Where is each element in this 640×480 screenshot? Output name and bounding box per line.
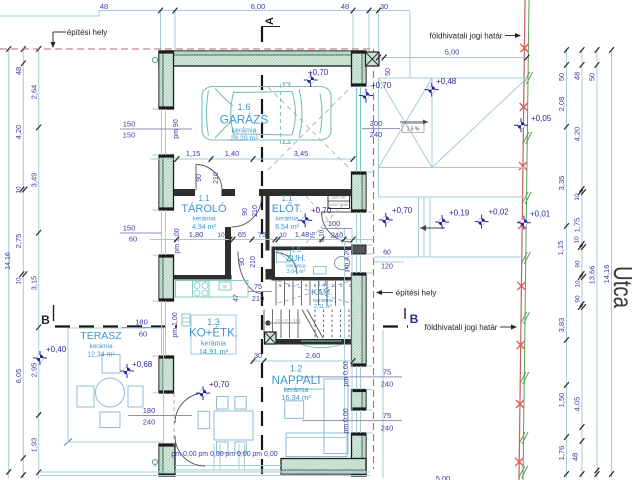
elevation marker outside +0,70 [379, 213, 393, 227]
stairs south wall [276, 339, 352, 345]
left dimension chains [8, 49, 10, 478]
svg-text:210: 210 [213, 172, 220, 184]
window zuh east [356, 254, 358, 273]
svg-text:48: 48 [341, 2, 349, 11]
svg-text:210: 210 [250, 256, 257, 268]
svg-text:50: 50 [385, 68, 392, 76]
svg-text:240: 240 [381, 424, 394, 433]
elevation marker +0,01 [517, 216, 531, 230]
door zuh 75/210 [276, 253, 298, 275]
svg-text:1.3: 1.3 [207, 317, 220, 327]
svg-text:ELŐT.: ELŐT. [272, 201, 303, 215]
svg-text:kerámia: kerámia [89, 343, 113, 350]
svg-text:TERASZ: TERASZ [80, 330, 122, 342]
svg-text:NAPPALI: NAPPALI [272, 373, 321, 387]
window sill marks left [153, 108, 160, 110]
svg-text:4,05: 4,05 [573, 397, 582, 412]
pillar at section line [265, 332, 277, 344]
right wall segment top [352, 51, 367, 86]
svg-text:6,00: 6,00 [251, 2, 266, 11]
survey circle top left [153, 58, 158, 63]
svg-text:48: 48 [14, 67, 23, 75]
svg-text:10: 10 [279, 232, 287, 239]
garage south wall mid piece [222, 189, 236, 196]
svg-text:75: 75 [383, 411, 391, 420]
svg-text:50: 50 [557, 73, 566, 81]
svg-text:75: 75 [258, 230, 266, 239]
svg-text:1,15: 1,15 [186, 149, 201, 158]
svg-text:GÉP LÁM: GÉP LÁM [332, 194, 346, 199]
staircase upper flight [276, 281, 344, 306]
svg-text:1.6: 1.6 [237, 102, 250, 113]
door 100 east [356, 212, 358, 245]
radiator under stairs [301, 341, 342, 348]
svg-text:H: H [223, 284, 226, 289]
svg-text:10: 10 [575, 280, 582, 288]
svg-text:kerámia: kerámia [232, 128, 257, 135]
left wall segment 1 [159, 51, 174, 109]
elevation marker +0,02 [475, 215, 489, 229]
kitchen shelf [182, 314, 190, 326]
elevation marker koetk +0,70 [196, 386, 210, 400]
zuh box [314, 267, 327, 275]
elot west wall piece [266, 196, 270, 251]
svg-text:3,04 m²: 3,04 m² [287, 269, 306, 275]
elevation marker terasz +0,40 [33, 351, 47, 365]
side table nappali [285, 401, 304, 419]
svg-text:földhivatali jogi határ: földhivatali jogi határ [430, 32, 503, 41]
svg-text:14,16: 14,16 [5, 252, 12, 270]
svg-text:60: 60 [383, 250, 391, 257]
koetk/hall wall block [266, 269, 276, 280]
chimney block top right [366, 52, 380, 66]
right wall bottom corner [352, 433, 367, 476]
garage south wall left piece [174, 189, 195, 196]
zuh shower [277, 251, 291, 263]
terrace corner tick [64, 439, 72, 446]
door elot-koetk 90/210 [238, 252, 262, 294]
svg-text:100: 100 [328, 219, 341, 228]
svg-text:pm 0,00: pm 0,00 [198, 451, 223, 458]
svg-text:47: 47 [233, 294, 240, 302]
svg-text:240: 240 [331, 231, 344, 240]
garage window 150/150 [120, 128, 192, 130]
zuh north wall [272, 247, 352, 251]
terrace round table [96, 378, 125, 407]
svg-text:10: 10 [574, 193, 581, 201]
driveway outline [379, 77, 528, 79]
elevation marker garage +0,70 [304, 73, 318, 87]
dining table koetk [214, 411, 253, 440]
svg-text:+0,40: +0,40 [46, 345, 67, 354]
svg-text:150: 150 [123, 120, 136, 129]
foldhivatali jogi hatar boundary red line [519, 0, 525, 480]
svg-text:10: 10 [217, 232, 225, 239]
svg-text:210: 210 [252, 205, 259, 217]
garage south wall right piece [259, 189, 352, 196]
svg-text:GARÁZS: GARÁZS [220, 113, 269, 127]
svg-text:2,64: 2,64 [30, 85, 39, 100]
outer wall top garage north [159, 51, 365, 66]
svg-text:3,15: 3,15 [30, 276, 39, 291]
svg-text:1,50: 1,50 [557, 393, 566, 408]
svg-text:4,94 m²: 4,94 m² [192, 224, 216, 231]
svg-text:3,35: 3,35 [557, 176, 566, 191]
svg-text:28,20 m²: 28,20 m² [230, 136, 258, 143]
svg-text:13,66: 13,66 [588, 266, 597, 285]
svg-text:2,60: 2,60 [306, 351, 321, 360]
svg-text:4,20: 4,20 [573, 127, 582, 142]
svg-text:+0,19: +0,19 [449, 209, 470, 218]
svg-text:1,75: 1,75 [573, 218, 582, 233]
svg-text:30: 30 [380, 2, 388, 11]
svg-text:1,40: 1,40 [225, 149, 240, 158]
terrace outline [68, 328, 164, 442]
svg-text:+0,70: +0,70 [371, 81, 392, 90]
taroló window 150/60 [120, 232, 162, 234]
svg-text:48: 48 [571, 453, 580, 461]
svg-text:MOSÓ SZÁR: MOSÓ SZÁR [329, 202, 349, 207]
dining chairs [217, 397, 229, 410]
svg-text:5,00: 5,00 [436, 474, 451, 480]
svg-text:90: 90 [575, 260, 582, 268]
top dimension line 48/6,00/48/30 [99, 10, 410, 12]
svg-text:1,5 %: 1,5 % [407, 127, 420, 133]
elevation marker +0,05 [514, 118, 528, 132]
svg-text:1.1: 1.1 [281, 194, 293, 203]
driveway diagonals [379, 78, 433, 168]
svg-text:+0,70: +0,70 [308, 68, 329, 77]
svg-text:180: 180 [143, 406, 156, 415]
right wall pier [352, 390, 367, 411]
svg-text:180: 180 [135, 318, 148, 327]
terrace door 180/240 [128, 415, 192, 417]
taroló south wall [174, 275, 232, 280]
svg-text:pm 4,20: pm 4,20 [344, 248, 351, 272]
right wall sill marks [366, 85, 373, 87]
svg-text:+0,70: +0,70 [311, 206, 332, 215]
window garage left [161, 109, 163, 155]
svg-text:2,10: 2,10 [319, 229, 326, 242]
svg-text:B: B [410, 312, 419, 326]
door 100/240 label [322, 228, 352, 230]
terrace chairs [102, 355, 120, 374]
svg-text:+0,48: +0,48 [436, 77, 457, 86]
right wall segment 3 [352, 273, 367, 366]
svg-text:pm 0,00: pm 0,00 [343, 408, 350, 433]
svg-text:120: 120 [381, 264, 393, 271]
kam north wall [272, 277, 352, 281]
svg-text:8,54 m²: 8,54 m² [275, 224, 299, 231]
garage door east [356, 86, 358, 172]
svg-text:+0,70: +0,70 [209, 380, 230, 389]
window nappali east 1 [356, 366, 358, 390]
svg-text:+0,02: +0,02 [489, 208, 510, 217]
left wall bottom corner [159, 444, 175, 476]
svg-text:12,34 m²: 12,34 m² [87, 352, 115, 359]
zuh washbasin [335, 257, 350, 270]
svg-text:150: 150 [123, 131, 136, 140]
svg-text:65: 65 [238, 230, 246, 239]
svg-text:240: 240 [370, 130, 383, 139]
slope arrow 1,5% [400, 121, 428, 123]
svg-text:3,83: 3,83 [557, 318, 566, 333]
svg-text:16,34 m²: 16,34 m² [281, 393, 311, 402]
step arrow [420, 227, 445, 229]
stair start dot [265, 320, 270, 325]
kam dashed diagonals [278, 281, 350, 303]
nappali cabinet line [284, 388, 324, 390]
svg-text:3,45: 3,45 [294, 149, 309, 158]
svg-text:10: 10 [16, 277, 23, 285]
svg-text:14,91 m²: 14,91 m² [199, 347, 229, 356]
svg-text:építési hely: építési hely [396, 289, 436, 298]
svg-text:B: B [41, 313, 50, 327]
svg-text:22 x 17 = 3,86: 22 x 17 = 3,86 [275, 318, 301, 323]
svg-text:TÁROLÓ: TÁROLÓ [181, 202, 227, 215]
right wall segment 2 [352, 172, 367, 212]
svg-text:90: 90 [575, 295, 582, 303]
right dimension chains [566, 50, 568, 478]
svg-text:75: 75 [383, 367, 391, 376]
svg-text:2,08: 2,08 [557, 97, 566, 112]
svg-text:A: A [264, 17, 276, 25]
svg-text:1.2: 1.2 [290, 364, 303, 374]
svg-text:90: 90 [239, 258, 246, 266]
sidewalk line 60/120 [374, 256, 523, 258]
french doors to terrace [175, 393, 205, 423]
elevation marker +0,48 [425, 83, 439, 97]
svg-text:10: 10 [574, 236, 581, 244]
sofa nappali [286, 433, 347, 457]
bottom wall nappali south [281, 459, 366, 475]
east window 75/240 lower [302, 420, 402, 422]
svg-text:4,20: 4,20 [14, 125, 23, 140]
svg-text:pm 90: pm 90 [173, 119, 180, 139]
svg-text:pm 0,00: pm 0,00 [252, 451, 277, 458]
svg-text:1,48: 1,48 [295, 230, 310, 239]
svg-text:50: 50 [588, 73, 597, 81]
svg-text:ZUH.: ZUH. [286, 253, 306, 263]
wall unit nappali [324, 379, 348, 454]
left wall segment 2 [159, 155, 174, 210]
window koetk left [161, 301, 163, 356]
staircase lower flight [264, 310, 349, 339]
window nappali east 2 [356, 410, 358, 433]
kitchen counter [176, 281, 249, 298]
svg-text:90: 90 [196, 174, 203, 182]
window taroló left [161, 210, 163, 255]
epitesi hely dashed red boundary [0, 48, 374, 50]
svg-text:pm 1,00: pm 1,00 [172, 312, 179, 337]
left wall pier 4 [159, 356, 174, 393]
svg-text:pm 0,00: pm 0,00 [343, 361, 350, 386]
garage door 300/240 label [362, 128, 400, 130]
bottom terrace lines [40, 471, 370, 473]
hall dims line 1,80/10/65/75/10/1,48/75 [150, 239, 375, 241]
door elot-taroló 90/210 [232, 197, 262, 227]
left wall segment 3 [159, 255, 174, 301]
garage interior dims 1,15/1,40/3,45 [150, 158, 355, 160]
door east 100/240 arc [322, 211, 352, 213]
terrace sliding door south [175, 465, 281, 467]
east window 75/240 upper [302, 376, 402, 378]
svg-text:60: 60 [139, 330, 147, 339]
svg-text:pm 0,00: pm 0,00 [171, 451, 196, 458]
svg-text:300: 300 [370, 119, 383, 128]
svg-text:150: 150 [123, 224, 136, 233]
section line B-B [55, 325, 177, 327]
right wall jamb [352, 245, 367, 254]
svg-text:240: 240 [143, 418, 156, 427]
svg-text:2,95: 2,95 [30, 363, 39, 378]
elevation marker +0,19 [435, 215, 449, 229]
taroló/elot partition wall [225, 227, 231, 279]
svg-text:60: 60 [129, 235, 137, 244]
stove with burners [193, 281, 210, 297]
svg-text:10: 10 [16, 186, 23, 194]
zuh west wall [272, 250, 276, 280]
svg-text:+0,68: +0,68 [132, 360, 153, 369]
room label koetk [191, 315, 236, 354]
boundary green line [523, 0, 529, 480]
svg-text:+0,05: +0,05 [531, 114, 552, 123]
survey circle bottom left [153, 460, 158, 465]
svg-text:1,80: 1,80 [189, 230, 204, 239]
svg-text:75: 75 [310, 232, 317, 240]
nappali dims 30/2,60 [251, 360, 355, 362]
svg-text:6,05: 6,05 [14, 369, 23, 384]
right opening extension lines [344, 229, 346, 434]
svg-text:+0,70: +0,70 [392, 206, 413, 215]
svg-text:1.1: 1.1 [198, 194, 210, 203]
svg-text:210: 210 [252, 294, 265, 303]
garage door track dashed [280, 84, 282, 145]
svg-text:1,15: 1,15 [556, 241, 565, 256]
garage dashed diagonals [268, 87, 351, 170]
svg-text:48: 48 [100, 2, 108, 11]
elevation marker door +0,70 [359, 89, 373, 103]
svg-text:földhivatali jogi határ: földhivatali jogi határ [425, 323, 498, 332]
svg-text:90: 90 [242, 208, 249, 216]
car in garage [202, 83, 331, 144]
svg-text:2,11 m²: 2,11 m² [314, 304, 332, 310]
elevation marker terasz +0,68 [120, 364, 134, 378]
terrace door 180/60 [122, 327, 166, 329]
5,00 dimension [379, 57, 528, 59]
svg-text:kerámia: kerámia [192, 216, 216, 223]
svg-text:KO+ÉTK.: KO+ÉTK. [189, 327, 238, 340]
section line A-A [261, 27, 263, 477]
svg-text:5,00: 5,00 [445, 48, 460, 57]
sink box H [219, 282, 231, 290]
zuh door 75/210 [248, 291, 272, 293]
svg-text:építési hely: építési hely [67, 28, 107, 37]
svg-text:2,75: 2,75 [14, 234, 23, 249]
svg-text:3,49: 3,49 [30, 173, 39, 188]
svg-text:+0,01: +0,01 [530, 210, 551, 219]
svg-text:KAM.: KAM. [312, 287, 333, 297]
door garage-taroló 90/210 [195, 165, 197, 191]
elevation marker elot +0,70 [298, 213, 312, 227]
svg-text:1,76: 1,76 [557, 446, 566, 461]
svg-text:240: 240 [381, 380, 394, 389]
svg-text:kerámia: kerámia [275, 216, 299, 223]
svg-text:1,93: 1,93 [30, 438, 39, 453]
elot dashed cross [306, 197, 351, 244]
svg-text:75: 75 [254, 282, 262, 291]
svg-text:pm 0,00: pm 0,00 [225, 451, 250, 458]
svg-text:30: 30 [254, 351, 262, 360]
svg-text:Utca: Utca [608, 266, 638, 308]
svg-text:48: 48 [573, 72, 582, 80]
steps strip [418, 197, 420, 257]
washer dryer elot [328, 194, 350, 209]
